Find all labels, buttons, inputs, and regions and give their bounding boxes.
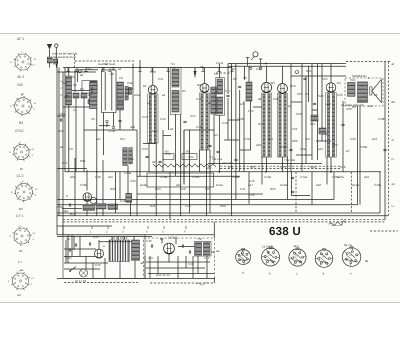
valve V6b — [90, 197, 96, 203]
svg-text:W9: W9 — [250, 165, 255, 169]
svg-text:C43a: C43a — [264, 175, 272, 179]
svg-text:a11: a11 — [368, 104, 373, 108]
dashed corner — [74, 54, 76, 68]
svg-text:C17a: C17a — [216, 61, 224, 65]
valve V3 — [261, 82, 271, 92]
valve base CF1 — [9, 141, 35, 161]
svg-text:C44a: C44a — [300, 175, 308, 179]
svg-text:C6: C6 — [91, 117, 95, 121]
wire — [204, 68, 206, 84]
wire — [239, 90, 241, 172]
svg-text:a14: a14 — [268, 137, 273, 141]
svg-text:C42a: C42a — [232, 175, 240, 179]
pinout a — [236, 248, 251, 264]
svg-text:L2: L2 — [374, 93, 378, 97]
svg-text:R5: R5 — [182, 89, 186, 93]
wire — [180, 114, 182, 216]
wire — [235, 64, 237, 200]
ganged capacitor frame — [102, 70, 117, 113]
svg-text:R21: R21 — [80, 159, 86, 163]
capacitor C18 — [181, 244, 183, 247]
pinout e — [342, 247, 361, 267]
wire — [98, 240, 100, 249]
junction — [265, 63, 267, 65]
pinout d — [315, 249, 333, 268]
svg-text:a2: a2 — [80, 73, 84, 77]
svg-text:C44: C44 — [66, 256, 72, 260]
choke bar 1 — [123, 148, 127, 166]
svg-text:C34: C34 — [188, 155, 194, 159]
wire — [244, 66, 246, 80]
wire — [295, 172, 297, 213]
wire — [243, 101, 245, 172]
svg-text:w5a r2a: w5a r2a — [222, 161, 233, 165]
psu second top line — [57, 235, 152, 237]
wire — [133, 236, 135, 240]
wire — [287, 157, 289, 200]
svg-text:w8b: w8b — [292, 139, 298, 143]
resistor R1 — [73, 93, 79, 98]
resistor box Ra — [163, 154, 174, 160]
wire — [92, 263, 94, 278]
svg-text:a15: a15 — [108, 175, 113, 179]
wire — [149, 256, 151, 278]
wire — [119, 172, 121, 200]
wire — [99, 241, 132, 243]
svg-text:C8: C8 — [110, 72, 114, 76]
svg-text:R24: R24 — [205, 187, 211, 191]
svg-text:CL 2: CL 2 — [17, 174, 24, 178]
svg-text:C7: C7 — [104, 62, 108, 66]
wire — [291, 75, 346, 77]
svg-text:w13a: w13a — [352, 183, 360, 187]
heater bus dashed 2 — [220, 168, 340, 170]
svg-text:C29: C29 — [332, 143, 338, 147]
wire — [139, 60, 141, 176]
wire — [175, 114, 177, 176]
wire — [189, 130, 191, 213]
svg-text:Bl. 2: Bl. 2 — [18, 75, 25, 79]
heater bus dashed 1 — [220, 165, 340, 167]
svg-text:a5: a5 — [170, 127, 174, 131]
svg-text:w5: w5 — [305, 92, 309, 96]
wire — [290, 64, 292, 172]
svg-text:C31: C31 — [292, 127, 298, 131]
junction — [202, 67, 204, 69]
svg-text:C11: C11 — [158, 77, 164, 81]
svg-text:R2: R2 — [88, 93, 92, 97]
wire — [84, 129, 137, 131]
volume pot zigzag — [153, 164, 216, 167]
antenna symbol — [47, 44, 52, 68]
wire — [57, 115, 65, 117]
valve V2 anode bars — [199, 93, 209, 150]
wire — [282, 66, 284, 83]
svg-text:S5: S5 — [200, 65, 204, 69]
svg-text:R25: R25 — [270, 187, 276, 191]
svg-text:W10: W10 — [220, 204, 227, 208]
capacitor Cg1 — [249, 67, 252, 69]
wire — [132, 64, 134, 131]
svg-text:C15: C15 — [196, 97, 202, 101]
wire — [56, 226, 58, 235]
svg-text:C49: C49 — [204, 256, 210, 260]
svg-text:w2a: w2a — [134, 93, 140, 97]
wire — [311, 64, 313, 161]
svg-text:w3: w3 — [214, 133, 218, 137]
svg-text:a4: a4 — [392, 182, 396, 186]
wire — [65, 95, 69, 97]
output choke — [348, 83, 356, 97]
wire — [209, 150, 211, 213]
capacitor C13 — [68, 203, 70, 206]
resistor box Rb — [182, 154, 197, 160]
capacitor C22 — [341, 123, 344, 125]
wire — [206, 256, 208, 278]
svg-text:C38a: C38a — [80, 183, 88, 187]
svg-text:C19: C19 — [248, 109, 254, 113]
svg-text:a0: a0 — [60, 145, 64, 149]
svg-text:a6: a6 — [208, 101, 212, 105]
svg-text:B4: B4 — [337, 81, 341, 85]
wire — [227, 64, 229, 95]
svg-text:C38: C38 — [95, 175, 101, 179]
bottom right dashes — [370, 230, 398, 232]
svg-text:S10: S10 — [350, 78, 356, 82]
valve V7 — [95, 249, 104, 258]
wire — [144, 256, 146, 278]
svg-text:AF 2: AF 2 — [17, 37, 24, 41]
svg-text:U: U — [392, 204, 394, 208]
svg-text:C20: C20 — [256, 67, 262, 71]
osc box dashed — [143, 238, 214, 278]
svg-text:w7: w7 — [346, 149, 350, 153]
wire — [83, 98, 85, 130]
svg-text:C37: C37 — [68, 147, 74, 151]
bus y216 — [57, 215, 388, 217]
svg-text:C24: C24 — [318, 94, 324, 98]
valve V4 anode bars — [277, 94, 287, 158]
wire — [194, 68, 196, 78]
wire — [219, 116, 221, 172]
svg-text:C21: C21 — [273, 97, 279, 101]
wire — [282, 157, 284, 172]
svg-text:C2a: C2a — [59, 112, 65, 116]
wire — [57, 168, 87, 170]
svg-text:a3: a3 — [118, 67, 122, 71]
svg-text:C3a: C3a — [128, 157, 134, 161]
wire — [102, 160, 104, 216]
wire — [199, 150, 201, 172]
wire — [321, 64, 323, 142]
svg-text:a4c: a4c — [96, 137, 101, 141]
svg-text:R1: R1 — [80, 87, 84, 91]
svg-text:a16: a16 — [176, 183, 181, 187]
wire — [64, 256, 95, 258]
capacitor Cg2 — [259, 67, 262, 69]
valve V5 anode bars — [326, 93, 336, 158]
svg-text:R30: R30 — [93, 235, 99, 239]
top rail right — [228, 63, 346, 65]
svg-text:a2: a2 — [392, 100, 396, 104]
capacitor C20 — [216, 150, 219, 152]
svg-text:C39: C39 — [130, 179, 136, 183]
svg-text:R26: R26 — [150, 204, 156, 208]
svg-text:C41a: C41a — [192, 175, 200, 179]
psu lower dashed — [150, 282, 214, 284]
svg-text:4a 5: 4a 5 — [293, 244, 299, 248]
svg-text:C43: C43 — [185, 204, 191, 208]
wire — [155, 143, 157, 216]
svg-text:a2a: a2a — [63, 209, 68, 213]
svg-text:C13b: C13b — [108, 129, 116, 133]
capacitor C0b — [112, 67, 115, 69]
wire — [183, 130, 185, 185]
wire — [62, 208, 82, 210]
wire — [183, 130, 185, 185]
svg-text:N: N — [392, 157, 394, 161]
wire — [184, 129, 214, 131]
wire — [75, 98, 77, 172]
second rail right — [228, 65, 346, 67]
valve V8 — [164, 243, 175, 254]
svg-text:T8a 12a: T8a 12a — [284, 158, 295, 162]
wire — [74, 158, 76, 216]
wire — [292, 195, 311, 197]
wire — [311, 172, 313, 205]
capacitor Cr1 — [193, 71, 195, 74]
svg-text:C16: C16 — [196, 125, 202, 129]
svg-text:R20: R20 — [310, 165, 316, 169]
wire — [143, 143, 156, 145]
svg-text:C9: C9 — [119, 76, 123, 80]
wire — [62, 226, 64, 235]
svg-text:C33: C33 — [142, 147, 148, 151]
IF transformer T2 — [216, 78, 225, 116]
junction — [265, 171, 267, 173]
valve V5 — [326, 83, 336, 93]
svg-text:C23: C23 — [297, 92, 303, 96]
choke bar 2 — [129, 148, 133, 164]
svg-text:B1: B1 — [143, 84, 147, 88]
wire — [152, 68, 154, 86]
bottom left short bus — [57, 225, 112, 227]
valve base CBL — [10, 94, 37, 116]
svg-text:C46: C46 — [146, 239, 152, 243]
svg-text:C14: C14 — [190, 114, 196, 118]
svg-text:B3: B3 — [271, 81, 275, 85]
wire — [253, 106, 262, 108]
top rail left — [63, 67, 232, 69]
wire — [197, 256, 199, 274]
mains bus dashed 2 — [63, 221, 385, 223]
svg-text:C4c: C4c — [249, 193, 255, 197]
svg-text:V: V — [66, 194, 68, 198]
page bottom edge line — [0, 302, 400, 304]
wire — [74, 70, 76, 92]
svg-text:C40: C40 — [180, 187, 186, 191]
capacitor C6 — [158, 160, 161, 162]
wire — [123, 236, 125, 240]
resistor R7 — [108, 204, 118, 210]
bus y163 — [208, 163, 322, 165]
svg-text:R14: R14 — [310, 122, 316, 126]
wire — [71, 235, 73, 256]
IF transformer T1 — [170, 67, 181, 114]
top cap terminal — [251, 52, 258, 61]
svg-text:a17: a17 — [248, 183, 253, 187]
svg-text:S4: S4 — [171, 62, 175, 66]
valve V1 anode bars — [148, 94, 158, 143]
svg-text:C12: C12 — [160, 117, 166, 121]
psu top line — [57, 234, 214, 236]
tick labels — [90, 230, 186, 234]
capacitor C15 — [74, 243, 76, 246]
svg-text:C26: C26 — [337, 93, 343, 97]
svg-text:na aa-tat ta-na ar: na aa-tat ta-na ar — [53, 55, 76, 59]
capacitor Cg3 — [303, 77, 306, 79]
corner v334 — [333, 172, 335, 200]
svg-text:aa: aa — [216, 249, 220, 253]
svg-text:Tr2: Tr2 — [197, 237, 202, 241]
wire — [106, 123, 108, 127]
wire — [350, 172, 352, 213]
wire — [296, 154, 312, 156]
svg-text:C2b: C2b — [58, 129, 64, 133]
psu bottom line — [57, 277, 215, 279]
wire — [64, 248, 96, 250]
svg-text:a9: a9 — [288, 104, 292, 108]
second top rail — [57, 71, 96, 73]
capacitor C11 — [291, 190, 294, 192]
svg-text:a4: a4 — [162, 93, 166, 97]
bus y172 — [65, 171, 381, 173]
paper area — [0, 34, 400, 303]
wire — [62, 72, 64, 235]
svg-text:C9a: C9a — [127, 81, 133, 85]
valve V4 — [278, 84, 288, 94]
valve V2 — [200, 84, 209, 93]
resistor R5 — [311, 115, 318, 121]
svg-text:a19: a19 — [364, 175, 369, 179]
coil L1 — [66, 76, 72, 105]
switch knob S1 — [78, 70, 81, 73]
wire — [330, 64, 332, 83]
earth terminal — [55, 44, 58, 68]
ballast resistor bank — [109, 240, 130, 262]
wire — [134, 261, 136, 279]
svg-text:C4a: C4a — [300, 147, 306, 151]
capacitor C17 — [150, 244, 152, 247]
wire — [111, 236, 113, 240]
wire — [168, 254, 170, 262]
wire — [213, 222, 215, 238]
svg-text:R22: R22 — [110, 187, 116, 191]
svg-text:C1b: C1b — [222, 121, 228, 125]
svg-text:B3: B3 — [19, 121, 23, 125]
wire — [148, 273, 214, 275]
capacitor C16 — [88, 242, 90, 245]
capacitor C2 — [112, 126, 115, 128]
svg-text:C27: C27 — [305, 137, 311, 141]
valve base CL2 — [11, 180, 38, 202]
wire — [326, 157, 328, 185]
svg-text:w11 12 13: w11 12 13 — [156, 273, 170, 277]
svg-text:C39a: C39a — [124, 171, 132, 175]
wire — [119, 123, 121, 128]
svg-text:w11a: w11a — [216, 183, 223, 187]
aerial coupling 2 — [54, 59, 58, 64]
valve V6 — [83, 193, 92, 202]
grid stub right — [259, 59, 263, 66]
svg-text:S8: S8 — [243, 76, 247, 80]
svg-text:C25: C25 — [322, 77, 328, 81]
wire — [178, 246, 195, 248]
svg-text:S2: S2 — [129, 87, 133, 91]
junction — [330, 171, 332, 173]
svg-text:at: at — [392, 62, 395, 66]
wire — [206, 150, 208, 216]
wire — [192, 256, 194, 278]
svg-text:C46a: C46a — [374, 183, 382, 187]
wire — [266, 66, 268, 82]
wire — [119, 110, 121, 130]
signature bottom — [196, 283, 208, 285]
resistor R6b — [96, 204, 106, 210]
speaker cone — [370, 80, 382, 103]
capacitor C9 — [238, 85, 241, 87]
wire — [162, 130, 164, 172]
wire — [227, 98, 229, 140]
resistor R3 — [88, 99, 95, 104]
svg-text:C4: C4 — [73, 108, 77, 112]
wire — [248, 66, 250, 82]
svg-text:R23: R23 — [155, 187, 161, 191]
wire — [146, 261, 210, 263]
svg-text:a12: a12 — [318, 147, 323, 151]
wire — [103, 113, 105, 156]
wire — [104, 72, 106, 111]
svg-text:C30: C30 — [238, 117, 244, 121]
svg-text:CF1C: CF1C — [15, 129, 24, 133]
wire — [308, 66, 310, 102]
capacitor C24 — [234, 158, 237, 160]
bus y213 — [57, 212, 380, 214]
svg-text:C36: C36 — [340, 165, 346, 169]
wire — [248, 172, 250, 204]
wire — [111, 72, 113, 111]
wire — [64, 68, 66, 173]
svg-text:C13: C13 — [142, 115, 148, 119]
wire — [85, 257, 87, 270]
svg-text:C2c: C2c — [62, 161, 68, 165]
svg-text:CBl: CBl — [17, 83, 23, 87]
rail terminal stubs — [66, 68, 233, 72]
capacitor C4 — [59, 118, 61, 121]
dash dot row — [216, 72, 232, 74]
svg-text:C28: C28 — [346, 107, 352, 111]
svg-text:w10a: w10a — [140, 183, 148, 187]
svg-text:C5: C5 — [73, 83, 77, 87]
svg-text:R10: R10 — [290, 84, 296, 88]
svg-text:a10: a10 — [326, 102, 331, 106]
capacitor C5 — [145, 155, 148, 157]
wire — [177, 256, 179, 278]
wire — [79, 236, 81, 256]
svg-text:Bn: Bn — [19, 249, 23, 253]
wire — [148, 143, 150, 172]
wire — [342, 101, 344, 172]
